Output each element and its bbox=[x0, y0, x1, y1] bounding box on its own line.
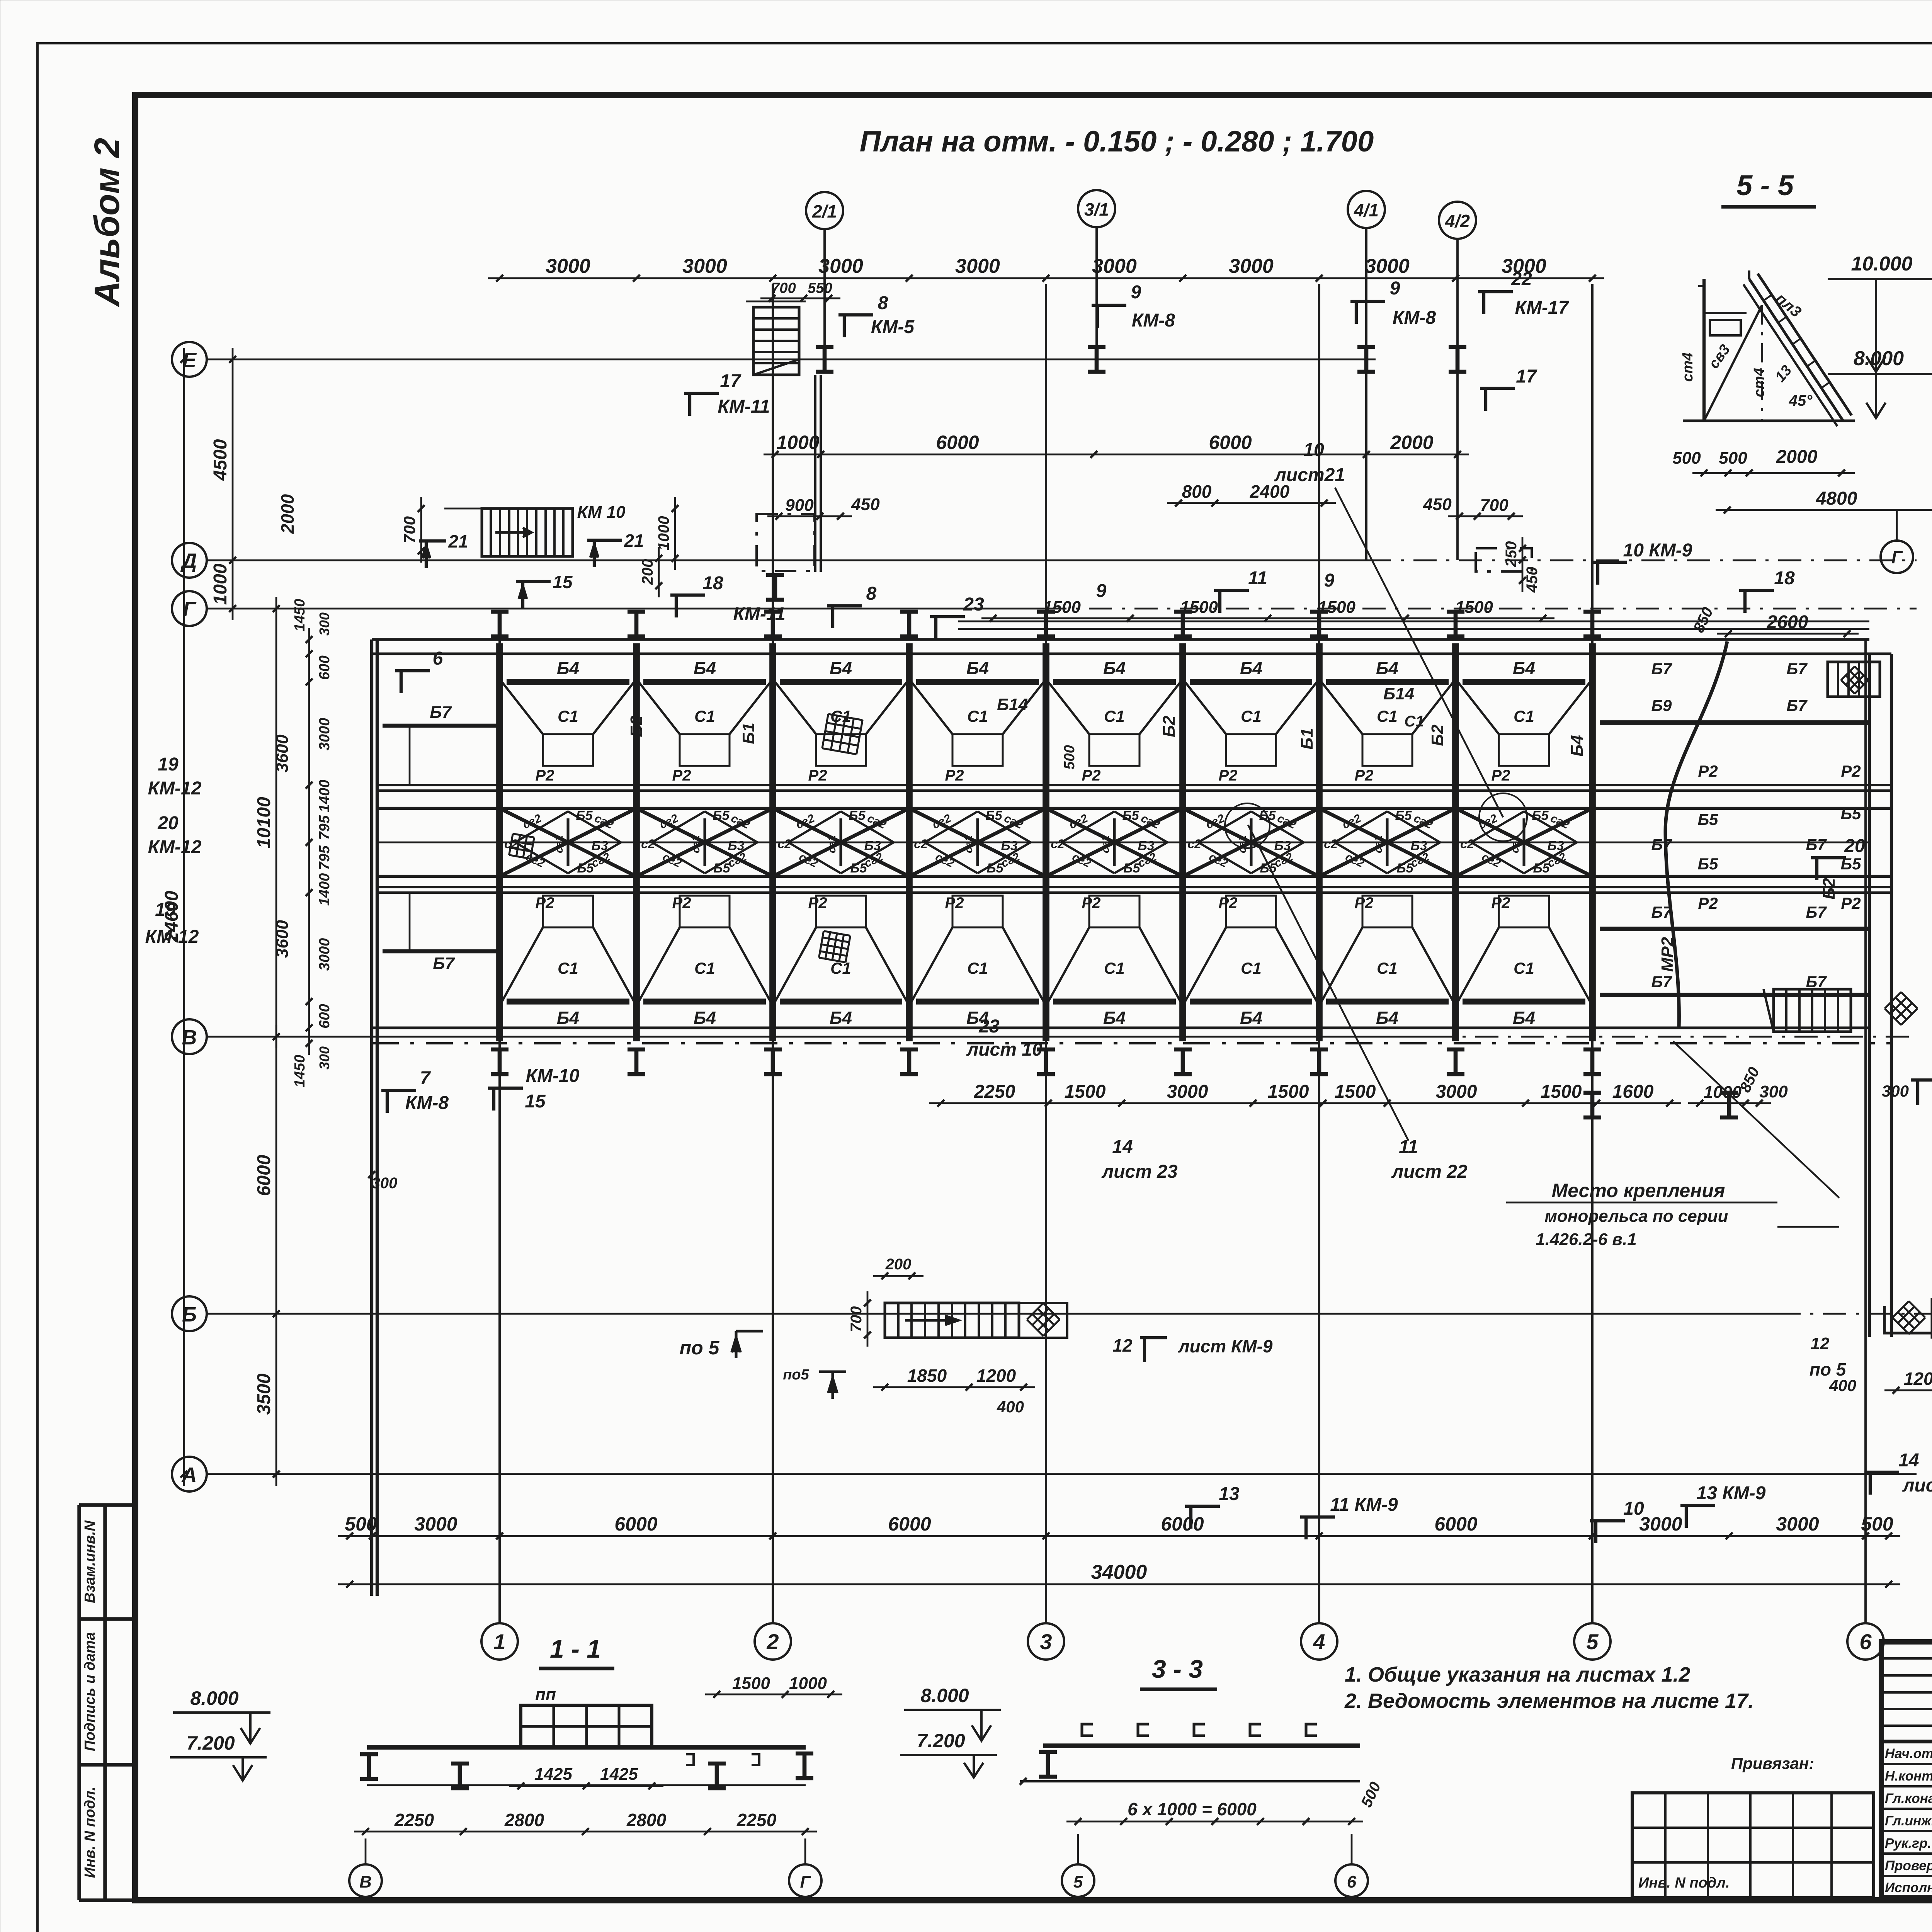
svg-text:Б5: Б5 bbox=[714, 861, 731, 876]
svg-text:С1: С1 bbox=[1241, 959, 1262, 977]
svg-text:Н.контр.: Н.контр. bbox=[1885, 1769, 1932, 1784]
svg-text:Б5: Б5 bbox=[1532, 808, 1549, 823]
svg-text:1200: 1200 bbox=[1904, 1369, 1932, 1389]
svg-text:3000: 3000 bbox=[414, 1513, 457, 1535]
svg-text:700: 700 bbox=[771, 280, 796, 296]
svg-text:Нач.отд.: Нач.отд. bbox=[1885, 1746, 1932, 1761]
svg-text:9: 9 bbox=[1096, 581, 1107, 601]
svg-text:Б7: Б7 bbox=[1651, 835, 1672, 854]
svg-text:Б3: Б3 bbox=[728, 838, 745, 853]
svg-text:Р2: Р2 bbox=[945, 895, 964, 912]
svg-text:6000: 6000 bbox=[1161, 1513, 1204, 1535]
svg-text:монорельса по серии: монорельса по серии bbox=[1545, 1207, 1728, 1226]
svg-text:Альбом 2: Альбом 2 bbox=[87, 138, 127, 307]
svg-text:С1: С1 bbox=[1514, 959, 1534, 977]
svg-text:3600: 3600 bbox=[273, 920, 292, 958]
svg-text:14: 14 bbox=[1898, 1450, 1919, 1471]
svg-text:1500: 1500 bbox=[1335, 1082, 1376, 1102]
svg-text:Б3: Б3 bbox=[1138, 838, 1155, 853]
svg-text:4800: 4800 bbox=[1816, 488, 1857, 509]
svg-text:Рук.гр.: Рук.гр. bbox=[1885, 1836, 1931, 1851]
svg-text:450: 450 bbox=[851, 495, 880, 514]
svg-text:21: 21 bbox=[624, 531, 644, 551]
svg-text:Р2: Р2 bbox=[1355, 767, 1374, 784]
svg-text:6000: 6000 bbox=[936, 432, 979, 453]
svg-text:19: 19 bbox=[155, 900, 176, 920]
svg-text:с2: с2 bbox=[1324, 837, 1338, 851]
svg-text:КМ-17: КМ-17 bbox=[1515, 298, 1570, 318]
svg-text:лист 22: лист 22 bbox=[1391, 1162, 1468, 1182]
svg-text:Б2: Б2 bbox=[1160, 716, 1179, 737]
svg-text:Б5: Б5 bbox=[577, 861, 594, 876]
svg-text:8.000: 8.000 bbox=[920, 1685, 969, 1706]
svg-text:8.000: 8.000 bbox=[190, 1687, 238, 1709]
svg-text:7: 7 bbox=[420, 1068, 431, 1088]
svg-text:Б4: Б4 bbox=[830, 1008, 852, 1028]
svg-text:лист КМ-9: лист КМ-9 bbox=[1178, 1336, 1273, 1356]
svg-text:1425: 1425 bbox=[534, 1765, 572, 1784]
svg-text:1450: 1450 bbox=[292, 599, 308, 632]
svg-text:Р2: Р2 bbox=[1355, 895, 1374, 912]
svg-text:Б14: Б14 bbox=[997, 695, 1028, 714]
svg-text:пп: пп bbox=[535, 1685, 556, 1704]
svg-text:С1: С1 bbox=[1104, 707, 1125, 725]
svg-text:900: 900 bbox=[785, 496, 814, 515]
svg-text:15: 15 bbox=[525, 1091, 546, 1112]
svg-text:Г: Г bbox=[800, 1872, 811, 1891]
svg-text:Б4: Б4 bbox=[694, 1008, 716, 1028]
svg-text:Б1: Б1 bbox=[1298, 728, 1316, 750]
svg-text:1: 1 bbox=[493, 1629, 505, 1654]
svg-text:1500: 1500 bbox=[1541, 1082, 1582, 1102]
svg-text:3000: 3000 bbox=[316, 938, 333, 971]
svg-text:С1: С1 bbox=[694, 959, 715, 977]
svg-text:2000: 2000 bbox=[1776, 447, 1818, 467]
svg-text:Б4: Б4 bbox=[1240, 658, 1262, 678]
svg-text:2. Ведомость элементов на л: 2. Ведомость элементов на листе 17. bbox=[1344, 1689, 1754, 1713]
svg-text:3000: 3000 bbox=[955, 255, 1000, 277]
svg-text:4: 4 bbox=[1313, 1629, 1325, 1654]
svg-text:4/1: 4/1 bbox=[1354, 200, 1379, 220]
svg-text:23: 23 bbox=[978, 1016, 1000, 1037]
svg-text:6 x 1000 = 6000: 6 x 1000 = 6000 bbox=[1128, 1799, 1257, 1819]
svg-text:Б4: Б4 bbox=[830, 658, 852, 678]
svg-text:45°: 45° bbox=[1789, 392, 1813, 409]
svg-text:17: 17 bbox=[1516, 366, 1537, 387]
svg-text:795: 795 bbox=[316, 845, 333, 870]
svg-text:300: 300 bbox=[316, 612, 332, 636]
svg-text:12: 12 bbox=[1811, 1334, 1830, 1353]
svg-text:700: 700 bbox=[1480, 496, 1509, 515]
svg-text:1400: 1400 bbox=[316, 873, 333, 906]
svg-text:Б5: Б5 bbox=[1397, 861, 1414, 876]
svg-text:по 5: по 5 bbox=[1810, 1359, 1847, 1379]
svg-text:сг1: сг1 bbox=[826, 835, 838, 853]
svg-text:Б7: Б7 bbox=[1651, 660, 1672, 678]
svg-text:Б4: Б4 bbox=[966, 658, 989, 678]
svg-text:Р2: Р2 bbox=[1082, 895, 1101, 912]
svg-text:КМ-8: КМ-8 bbox=[405, 1093, 449, 1113]
svg-text:400: 400 bbox=[997, 1398, 1024, 1416]
svg-text:Б1: Б1 bbox=[739, 723, 758, 744]
svg-text:С1: С1 bbox=[694, 707, 715, 725]
svg-text:6000: 6000 bbox=[1209, 432, 1252, 453]
svg-text:800: 800 bbox=[1182, 481, 1212, 502]
svg-text:Б5: Б5 bbox=[987, 861, 1004, 876]
svg-text:3600: 3600 bbox=[273, 735, 292, 772]
svg-text:Б7: Б7 bbox=[1786, 660, 1808, 678]
svg-text:Р2: Р2 bbox=[808, 895, 827, 912]
svg-text:3000: 3000 bbox=[1436, 1082, 1477, 1102]
svg-text:КМ-5: КМ-5 bbox=[871, 317, 915, 337]
svg-text:КМ-8: КМ-8 bbox=[1393, 308, 1436, 328]
svg-text:Взам.инв.N: Взам.инв.N bbox=[82, 1520, 98, 1603]
svg-text:С1: С1 bbox=[1104, 959, 1125, 977]
svg-text:Б3: Б3 bbox=[1274, 838, 1291, 853]
svg-text:КМ 10: КМ 10 bbox=[577, 503, 626, 522]
svg-text:10100: 10100 bbox=[254, 797, 274, 849]
svg-text:2800: 2800 bbox=[626, 1810, 667, 1830]
svg-text:1000: 1000 bbox=[776, 432, 819, 453]
svg-text:1450: 1450 bbox=[292, 1055, 308, 1088]
svg-text:2000: 2000 bbox=[277, 494, 298, 534]
svg-text:3/1: 3/1 bbox=[1084, 199, 1109, 219]
svg-text:550: 550 bbox=[808, 280, 832, 296]
svg-text:700: 700 bbox=[848, 1306, 865, 1332]
svg-text:ст4: ст4 bbox=[1751, 368, 1767, 397]
svg-text:с2: с2 bbox=[914, 837, 928, 851]
svg-text:18: 18 bbox=[1774, 568, 1795, 588]
svg-text:23: 23 bbox=[963, 594, 984, 615]
svg-text:по 5: по 5 bbox=[680, 1337, 720, 1359]
svg-text:795: 795 bbox=[316, 815, 333, 840]
svg-text:лист21: лист21 bbox=[1274, 465, 1345, 485]
svg-text:Б2: Б2 bbox=[1820, 878, 1838, 900]
svg-text:Г: Г bbox=[183, 598, 197, 621]
svg-text:1500: 1500 bbox=[1043, 598, 1081, 617]
svg-text:3000: 3000 bbox=[1092, 255, 1137, 277]
svg-text:3: 3 bbox=[1040, 1629, 1052, 1654]
svg-text:Б4: Б4 bbox=[1513, 1008, 1535, 1028]
svg-text:1500: 1500 bbox=[1065, 1082, 1106, 1102]
svg-text:8.000: 8.000 bbox=[1854, 347, 1904, 370]
svg-text:15: 15 bbox=[553, 572, 573, 592]
svg-text:Б5: Б5 bbox=[1395, 808, 1412, 823]
svg-text:Д: Д bbox=[180, 549, 197, 573]
svg-text:7.200: 7.200 bbox=[186, 1732, 235, 1754]
svg-text:1500: 1500 bbox=[1180, 598, 1218, 617]
svg-text:Б7: Б7 bbox=[1806, 835, 1827, 854]
svg-text:С1: С1 bbox=[1377, 959, 1398, 977]
svg-text:1500: 1500 bbox=[732, 1674, 770, 1693]
svg-text:КМ-12: КМ-12 bbox=[145, 927, 199, 947]
svg-text:10: 10 bbox=[1623, 1498, 1644, 1519]
svg-text:Б5: Б5 bbox=[1124, 861, 1141, 876]
svg-text:Инв. N подл.: Инв. N подл. bbox=[82, 1787, 98, 1878]
svg-text:Б7: Б7 bbox=[1651, 973, 1672, 991]
svg-text:11 КМ-9: 11 КМ-9 bbox=[1330, 1495, 1398, 1515]
svg-text:Р2: Р2 bbox=[1698, 762, 1718, 780]
svg-text:КМ-11: КМ-11 bbox=[718, 396, 770, 417]
svg-text:Исполнил: Исполнил bbox=[1885, 1880, 1932, 1895]
svg-text:Б4: Б4 bbox=[1240, 1008, 1262, 1028]
svg-text:1. Общие указания на листах: 1. Общие указания на листах 1.2 bbox=[1345, 1663, 1690, 1686]
svg-text:3000: 3000 bbox=[1776, 1513, 1819, 1535]
svg-text:Б5: Б5 bbox=[986, 808, 1003, 823]
svg-text:КМ-12: КМ-12 bbox=[148, 837, 202, 857]
svg-text:С1: С1 bbox=[558, 959, 578, 977]
svg-text:Р2: Р2 bbox=[808, 767, 827, 784]
svg-text:5: 5 bbox=[1586, 1629, 1599, 1654]
svg-text:11: 11 bbox=[1248, 568, 1267, 588]
svg-text:18: 18 bbox=[702, 573, 723, 594]
svg-text:8: 8 bbox=[866, 583, 877, 604]
svg-text:Р2: Р2 bbox=[1492, 895, 1510, 912]
svg-text:Р2: Р2 bbox=[672, 767, 691, 784]
svg-text:5: 5 bbox=[1073, 1872, 1083, 1891]
svg-text:500: 500 bbox=[1061, 745, 1078, 769]
svg-text:Б5: Б5 bbox=[1533, 861, 1550, 876]
svg-text:3000: 3000 bbox=[682, 255, 727, 277]
svg-text:7.200: 7.200 bbox=[917, 1730, 965, 1752]
svg-text:300: 300 bbox=[372, 1175, 398, 1192]
svg-text:9: 9 bbox=[1131, 282, 1141, 303]
svg-text:сг1: сг1 bbox=[690, 835, 702, 853]
svg-text:2250: 2250 bbox=[974, 1082, 1015, 1102]
svg-text:13 КМ-9: 13 КМ-9 bbox=[1697, 1483, 1766, 1503]
svg-text:лист 23: лист 23 bbox=[1101, 1162, 1178, 1182]
svg-text:10.000: 10.000 bbox=[1851, 253, 1912, 275]
svg-text:Б5: Б5 bbox=[1122, 808, 1139, 823]
svg-text:2800: 2800 bbox=[504, 1810, 544, 1830]
svg-text:Место крепления: Место крепления bbox=[1552, 1180, 1725, 1201]
svg-text:КМ-11: КМ-11 bbox=[733, 604, 785, 624]
svg-text:лист КМ-10: лист КМ-10 bbox=[1902, 1475, 1932, 1496]
svg-text:1850: 1850 bbox=[907, 1366, 947, 1386]
svg-text:Р2: Р2 bbox=[1698, 894, 1718, 912]
svg-text:Привязан:: Привязан: bbox=[1731, 1754, 1814, 1772]
svg-text:22: 22 bbox=[1511, 269, 1532, 289]
svg-text:2: 2 bbox=[766, 1629, 779, 1654]
svg-text:Гл.конатр.: Гл.конатр. bbox=[1885, 1791, 1932, 1806]
svg-text:С1: С1 bbox=[1514, 707, 1534, 725]
svg-text:3000: 3000 bbox=[546, 255, 590, 277]
svg-text:2/1: 2/1 bbox=[812, 201, 837, 221]
svg-text:10 КМ-9: 10 КМ-9 bbox=[1623, 540, 1692, 561]
svg-text:Б9: Б9 bbox=[1651, 696, 1672, 714]
svg-text:Р2: Р2 bbox=[1082, 767, 1101, 784]
svg-text:3000: 3000 bbox=[818, 255, 863, 277]
svg-text:6: 6 bbox=[433, 648, 443, 669]
svg-text:4500: 4500 bbox=[210, 439, 231, 481]
svg-text:Б4: Б4 bbox=[557, 1008, 579, 1028]
svg-text:Гл.инж.пр: Гл.инж.пр bbox=[1885, 1813, 1932, 1828]
svg-text:Б4: Б4 bbox=[1376, 1008, 1398, 1028]
svg-text:Б5: Б5 bbox=[713, 808, 730, 823]
svg-text:Подпись и дата: Подпись и дата bbox=[82, 1632, 98, 1751]
svg-text:Р2: Р2 bbox=[1841, 762, 1861, 780]
svg-text:6000: 6000 bbox=[254, 1155, 274, 1196]
svg-text:Б3: Б3 bbox=[1548, 838, 1564, 853]
svg-text:Б5: Б5 bbox=[849, 808, 866, 823]
svg-text:1 - 1: 1 - 1 bbox=[550, 1634, 601, 1663]
svg-text:20: 20 bbox=[1844, 836, 1865, 856]
svg-text:1200: 1200 bbox=[976, 1366, 1016, 1386]
svg-text:Б4: Б4 bbox=[694, 658, 716, 678]
svg-text:Р2: Р2 bbox=[672, 895, 691, 912]
svg-text:по5: по5 bbox=[783, 1367, 809, 1383]
svg-text:Б4: Б4 bbox=[1568, 735, 1587, 757]
svg-text:300: 300 bbox=[1759, 1082, 1788, 1101]
svg-text:С1: С1 bbox=[1377, 707, 1398, 725]
svg-text:с2: с2 bbox=[1460, 837, 1474, 851]
svg-text:6: 6 bbox=[1859, 1629, 1872, 1654]
svg-text:Р2: Р2 bbox=[536, 767, 554, 784]
svg-text:Б14: Б14 bbox=[1383, 684, 1414, 703]
svg-text:Б5: Б5 bbox=[1697, 810, 1718, 828]
svg-text:Б4: Б4 bbox=[557, 658, 579, 678]
svg-text:450: 450 bbox=[1423, 495, 1452, 514]
svg-text:3000: 3000 bbox=[1167, 1082, 1208, 1102]
svg-text:3000: 3000 bbox=[1229, 255, 1274, 277]
svg-text:300: 300 bbox=[1882, 1082, 1909, 1100]
svg-text:3500: 3500 bbox=[254, 1373, 274, 1415]
svg-text:Б2: Б2 bbox=[1428, 724, 1447, 746]
svg-text:700: 700 bbox=[400, 516, 418, 543]
svg-text:600: 600 bbox=[316, 1004, 333, 1028]
svg-text:С1: С1 bbox=[1241, 707, 1262, 725]
svg-text:200: 200 bbox=[639, 559, 656, 585]
svg-text:13: 13 bbox=[1219, 1484, 1240, 1504]
svg-text:Б5: Б5 bbox=[850, 861, 867, 876]
svg-text:Р2: Р2 bbox=[945, 767, 964, 784]
svg-text:17: 17 bbox=[720, 371, 742, 391]
svg-text:сг1: сг1 bbox=[1099, 835, 1111, 853]
svg-text:1500: 1500 bbox=[1268, 1082, 1309, 1102]
svg-text:С1: С1 bbox=[558, 707, 578, 725]
svg-text:С1: С1 bbox=[967, 959, 988, 977]
svg-text:1000: 1000 bbox=[655, 516, 672, 551]
svg-text:20: 20 bbox=[157, 813, 179, 833]
svg-text:6000: 6000 bbox=[888, 1513, 931, 1535]
svg-text:Р2: Р2 bbox=[536, 895, 554, 912]
svg-text:1000: 1000 bbox=[210, 563, 231, 605]
svg-text:с2: с2 bbox=[777, 837, 791, 851]
svg-text:КМ-12: КМ-12 bbox=[148, 778, 202, 799]
svg-text:сг1: сг1 bbox=[1372, 835, 1384, 853]
svg-text:1600: 1600 bbox=[1612, 1082, 1654, 1102]
svg-text:Б4: Б4 bbox=[1513, 658, 1535, 678]
svg-text:600: 600 bbox=[316, 655, 333, 680]
svg-text:6: 6 bbox=[1347, 1872, 1357, 1891]
svg-text:с2: с2 bbox=[1051, 837, 1065, 851]
svg-text:1000: 1000 bbox=[789, 1674, 827, 1693]
svg-text:3000: 3000 bbox=[1365, 255, 1410, 277]
svg-text:Б3: Б3 bbox=[592, 838, 608, 853]
svg-text:1500: 1500 bbox=[1455, 598, 1493, 617]
svg-text:5 - 5: 5 - 5 bbox=[1736, 169, 1794, 201]
svg-text:10: 10 bbox=[1303, 440, 1324, 460]
svg-text:19: 19 bbox=[158, 754, 179, 775]
svg-text:300: 300 bbox=[316, 1046, 332, 1070]
svg-text:3000: 3000 bbox=[316, 718, 333, 751]
svg-text:6000: 6000 bbox=[614, 1513, 657, 1535]
svg-text:Инв. N подл.: Инв. N подл. bbox=[1638, 1875, 1730, 1891]
svg-text:Б4: Б4 bbox=[1376, 658, 1398, 678]
svg-text:Проверил: Проверил bbox=[1885, 1858, 1932, 1873]
svg-text:9: 9 bbox=[1390, 278, 1400, 299]
svg-text:С1: С1 bbox=[967, 707, 988, 725]
svg-text:Б2: Б2 bbox=[627, 716, 646, 737]
svg-text:с2: с2 bbox=[641, 837, 655, 851]
svg-text:лист 10: лист 10 bbox=[966, 1039, 1043, 1060]
svg-text:1400: 1400 bbox=[316, 780, 333, 813]
svg-text:2250: 2250 bbox=[394, 1810, 434, 1830]
svg-text:500: 500 bbox=[1861, 1513, 1893, 1535]
svg-text:500: 500 bbox=[1719, 449, 1747, 468]
svg-text:Р2: Р2 bbox=[1841, 894, 1861, 912]
svg-text:8: 8 bbox=[878, 293, 888, 313]
svg-text:С1: С1 bbox=[1404, 713, 1424, 730]
svg-text:Б5: Б5 bbox=[1840, 804, 1861, 823]
svg-text:КМ-8: КМ-8 bbox=[1132, 310, 1175, 331]
svg-text:Б4: Б4 bbox=[1103, 658, 1126, 678]
svg-text:9: 9 bbox=[1324, 570, 1335, 591]
svg-text:Б3: Б3 bbox=[1411, 838, 1427, 853]
svg-text:Б7: Б7 bbox=[1806, 903, 1827, 921]
svg-text:Р2: Р2 bbox=[1492, 767, 1510, 784]
svg-text:сг1: сг1 bbox=[553, 835, 565, 853]
svg-text:Г: Г bbox=[1891, 547, 1903, 567]
svg-text:сг1: сг1 bbox=[963, 835, 975, 853]
svg-text:Б7: Б7 bbox=[1786, 696, 1808, 714]
svg-text:Б5: Б5 bbox=[1697, 855, 1718, 873]
svg-text:14: 14 bbox=[1112, 1137, 1133, 1157]
svg-text:Б5: Б5 bbox=[576, 808, 593, 823]
svg-text:6000: 6000 bbox=[1434, 1513, 1477, 1535]
svg-text:12: 12 bbox=[1112, 1335, 1133, 1355]
svg-text:КМ-10: КМ-10 bbox=[526, 1066, 580, 1086]
svg-text:2250: 2250 bbox=[736, 1810, 777, 1830]
svg-text:1.426.2-6 в.1: 1.426.2-6 в.1 bbox=[1536, 1230, 1636, 1249]
svg-text:сг1: сг1 bbox=[1236, 835, 1248, 853]
svg-text:1425: 1425 bbox=[600, 1765, 638, 1784]
svg-text:План на отм. - 0.150 ; - 0: План на отм. - 0.150 ; - 0.280 ; 1.700 bbox=[860, 125, 1374, 158]
svg-text:1500: 1500 bbox=[1318, 598, 1355, 617]
svg-text:500: 500 bbox=[1672, 449, 1701, 468]
svg-text:Р2: Р2 bbox=[1219, 895, 1238, 912]
svg-text:В: В bbox=[359, 1872, 372, 1891]
svg-text:3000: 3000 bbox=[1639, 1513, 1682, 1535]
svg-text:Р2: Р2 bbox=[1219, 767, 1238, 784]
svg-text:Б3: Б3 bbox=[864, 838, 881, 853]
svg-text:Б4: Б4 bbox=[1103, 1008, 1126, 1028]
svg-text:34000: 34000 bbox=[1091, 1561, 1147, 1583]
svg-text:ст4: ст4 bbox=[1680, 352, 1696, 382]
svg-text:Б7: Б7 bbox=[433, 954, 455, 973]
svg-text:Б7: Б7 bbox=[430, 703, 452, 722]
svg-text:250: 250 bbox=[1503, 541, 1520, 568]
svg-text:200: 200 bbox=[885, 1256, 912, 1273]
svg-text:4/2: 4/2 bbox=[1445, 211, 1470, 231]
svg-text:Б3: Б3 bbox=[1001, 838, 1018, 853]
svg-text:3 - 3: 3 - 3 bbox=[1152, 1655, 1203, 1683]
svg-text:21: 21 bbox=[448, 531, 468, 551]
svg-text:2000: 2000 bbox=[1390, 432, 1433, 453]
svg-text:с2: с2 bbox=[1187, 837, 1201, 851]
